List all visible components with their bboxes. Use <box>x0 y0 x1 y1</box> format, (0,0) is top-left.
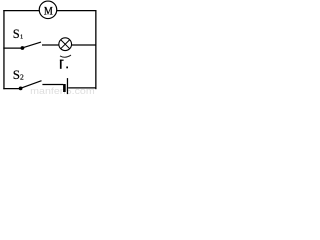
motor M (circle symbol) <box>39 1 57 19</box>
wire: right rail <box>95 10 97 89</box>
node: S2 hinge junction dot <box>19 87 23 91</box>
lamp L reference label <box>60 60 68 69</box>
battery BT1 negative plate (short thick) <box>63 84 66 92</box>
switch S2 blade (open) <box>21 81 42 89</box>
wire: bottom rail, right segment (battery to right rail) <box>68 87 96 89</box>
svg-text:S: S <box>13 27 20 41</box>
decorative arc mark below lamp (as in source) <box>60 55 71 57</box>
wire: left rail <box>3 10 5 89</box>
lamp L (circle with cross) <box>59 38 72 51</box>
wire: lamp L to right rail <box>72 44 96 46</box>
switch S1 blade (open) <box>23 42 41 48</box>
wire: middle branch from left rail to S1 hinge <box>3 47 21 49</box>
wire: S1 fixed contact to lamp L <box>42 44 59 46</box>
wire: bottom rail, left segment (left rail to S2 hinge) <box>3 88 20 90</box>
battery BT1 positive plate (long thin) <box>67 78 68 94</box>
svg-text:1: 1 <box>20 33 23 40</box>
svg-text:S: S <box>13 67 20 82</box>
wire: top rail, left segment <box>3 10 40 12</box>
node: S1 hinge junction dot <box>21 46 25 50</box>
svg-text:M: M <box>44 5 53 18</box>
wire: top rail, right segment <box>57 10 97 12</box>
wire: S2 fixed contact to battery <box>42 84 63 86</box>
svg-text:2: 2 <box>20 73 24 82</box>
